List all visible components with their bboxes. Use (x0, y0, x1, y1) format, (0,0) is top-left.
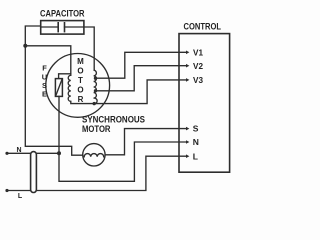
svg-text:F: F (42, 64, 47, 73)
svg-text:V1: V1 (193, 47, 203, 57)
svg-text:T: T (78, 76, 83, 85)
svg-text:L: L (18, 193, 23, 200)
svg-text:U: U (42, 72, 47, 81)
svg-text:CONTROL: CONTROL (184, 22, 222, 33)
svg-text:N: N (16, 147, 21, 154)
svg-text:O: O (77, 66, 83, 75)
svg-text:MOTOR: MOTOR (82, 124, 111, 134)
svg-text:SYNCHRONOUS: SYNCHRONOUS (82, 115, 145, 125)
svg-text:V2: V2 (193, 61, 203, 71)
svg-text:E: E (42, 90, 47, 99)
svg-text:O: O (77, 85, 83, 94)
svg-text:N: N (193, 137, 199, 147)
svg-text:M: M (77, 57, 84, 66)
svg-text:L: L (193, 151, 198, 161)
svg-text:R: R (78, 95, 84, 104)
svg-text:S: S (42, 81, 47, 90)
svg-text:V3: V3 (193, 75, 203, 85)
svg-text:CAPACITOR: CAPACITOR (40, 9, 85, 20)
svg-text:S: S (193, 124, 199, 134)
